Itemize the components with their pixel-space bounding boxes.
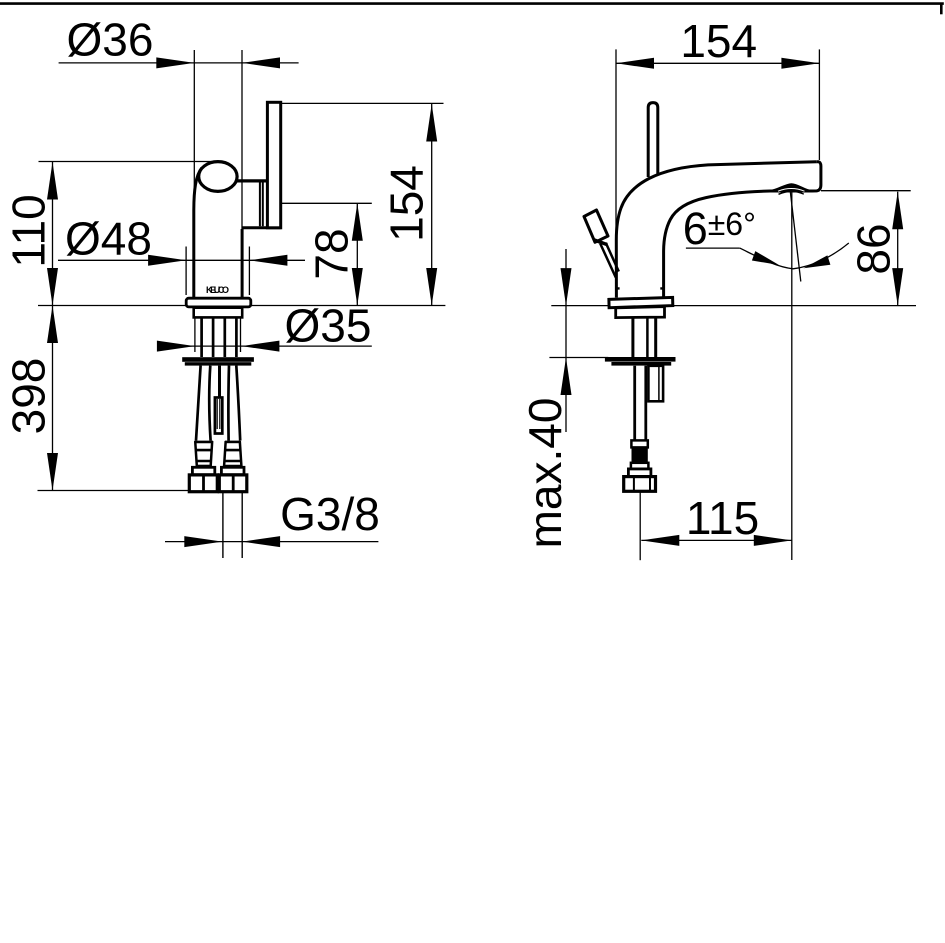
pull rod front bbox=[218, 366, 221, 398]
right fitting front bbox=[219, 441, 247, 492]
faucet front: housing double lines bbox=[260, 183, 263, 227]
dim max.40 bbox=[549, 249, 608, 432]
svg-text:115: 115 bbox=[686, 492, 759, 544]
shank side bbox=[633, 318, 656, 357]
dim 154 side bbox=[616, 49, 819, 262]
svg-text:G3/8: G3/8 bbox=[280, 488, 380, 540]
shank front bbox=[194, 308, 243, 318]
left fitting front bbox=[189, 441, 217, 492]
svg-text:Ø35: Ø35 bbox=[285, 300, 372, 352]
angle leader and arc bbox=[686, 247, 740, 249]
svg-text:110: 110 bbox=[3, 194, 55, 267]
svg-text:Ø48: Ø48 bbox=[65, 213, 152, 265]
base plate front bbox=[186, 298, 251, 307]
faucet front: body right edge bbox=[241, 229, 244, 298]
angle 6 deg tilted line bbox=[790, 192, 801, 282]
dim 398 bbox=[38, 306, 189, 491]
svg-text:Ø36: Ø36 bbox=[67, 14, 154, 66]
rod side bbox=[648, 366, 663, 402]
faucet front: dome ellipse bbox=[199, 162, 237, 192]
hose fittings side bbox=[624, 440, 656, 491]
deck line front bbox=[38, 305, 445, 307]
border top line bbox=[0, 4, 944, 15]
supply rods front bbox=[202, 318, 237, 358]
svg-text:154: 154 bbox=[381, 165, 433, 242]
svg-text:398: 398 bbox=[3, 358, 55, 435]
side body back+top edge bbox=[616, 162, 817, 298]
dim line Ø36 bbox=[59, 50, 299, 297]
arrows Ø36 bbox=[156, 57, 280, 68]
right hose front bbox=[228, 366, 240, 441]
svg-text:154: 154 bbox=[680, 15, 757, 67]
side handle rod bbox=[648, 103, 658, 177]
side lever grip bbox=[584, 210, 608, 242]
svg-text:max.40: max.40 bbox=[519, 398, 571, 549]
side lever collar bbox=[594, 240, 607, 245]
side lever rod bbox=[600, 243, 619, 278]
faucet front: arm top edge bbox=[236, 179, 270, 182]
dim 110 bbox=[39, 162, 214, 306]
dim 78 bbox=[281, 203, 372, 305]
dim 86 bbox=[821, 191, 911, 306]
svg-text:86: 86 bbox=[847, 223, 899, 274]
faucet front: body left edge bbox=[194, 168, 202, 298]
faucet front: handle bar bbox=[267, 102, 280, 228]
svg-text:KEUCO: KEUCO bbox=[206, 285, 229, 295]
dim 154 front bbox=[281, 103, 444, 305]
dim Ø48 bbox=[58, 247, 305, 296]
hose side bbox=[635, 366, 646, 441]
left hose front bbox=[196, 366, 211, 441]
dim G3/8 bbox=[165, 541, 378, 543]
svg-text:78: 78 bbox=[306, 228, 358, 279]
flange side bbox=[605, 357, 676, 362]
dim Ø35 bbox=[157, 345, 372, 347]
side spout tip + underside + front edge bbox=[664, 162, 821, 298]
deck line side bbox=[551, 305, 916, 307]
G3/8 pipe lines bbox=[223, 492, 242, 558]
tube walls front bbox=[195, 318, 241, 353]
base plate side bbox=[609, 297, 673, 307]
flange front bbox=[182, 357, 254, 362]
body notches side bbox=[616, 287, 663, 289]
faucet front: arm bottom edge bbox=[242, 226, 281, 229]
angle arrows bbox=[752, 251, 831, 268]
aerator bump bbox=[770, 184, 812, 191]
plate tier side bbox=[616, 307, 665, 318]
dim 115 bbox=[640, 185, 792, 560]
